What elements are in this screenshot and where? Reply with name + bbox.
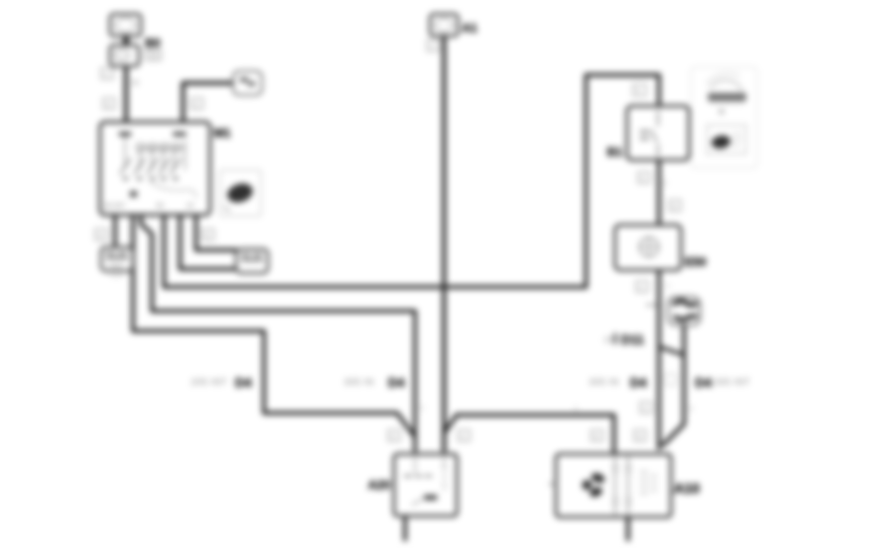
svg-text:B0: B0: [145, 36, 161, 50]
svg-text:3: 3: [98, 233, 102, 240]
connector square between wires at D4 row: [665, 374, 676, 385]
svg-text:D4: D4: [630, 375, 647, 390]
pin tick on wire above horn branch: [646, 304, 657, 306]
connector square below E50: [636, 281, 648, 292]
wire C : M1 jog down to A20 pin 1: [141, 215, 415, 452]
svg-text:3: 3: [672, 204, 676, 211]
svg-text:1: 1: [666, 283, 670, 290]
wire D : M1 down right and up to relay B: [164, 75, 659, 287]
svg-text:6: 6: [636, 88, 640, 95]
connector square 1 on B0 wire: [101, 68, 113, 79]
wire relay B to E50: [657, 160, 661, 225]
svg-text:3: 3: [637, 434, 641, 441]
connector square on wire above B box: [633, 84, 646, 96]
wire A20 ground stub: [403, 516, 407, 541]
svg-text:1: 1: [643, 406, 647, 413]
wire A1 trunk to A20 pin2: [442, 34, 446, 452]
svg-text:E50: E50: [685, 255, 707, 269]
svg-text:30: 30: [131, 80, 139, 87]
M1 internal switch drawing: [104, 132, 196, 210]
svg-text:1: 1: [663, 180, 667, 187]
wire A10 ground stub: [626, 517, 630, 541]
svg-text:D4: D4: [388, 375, 405, 390]
connector square left of pin A: [95, 229, 107, 240]
component A1 box: [430, 14, 458, 36]
relay B box: [627, 106, 689, 160]
svg-text:50: 50: [156, 203, 164, 210]
svg-text:305 IN: 305 IN: [589, 377, 619, 387]
connector square 2 on B0 wire: [103, 98, 115, 109]
wire branch from trunk to A10: [455, 415, 614, 454]
battery B0 lower box: [110, 45, 139, 66]
battery B0 upper box: [110, 14, 141, 36]
wire B : M1 to A20 pin 1 via left loop: [133, 215, 415, 437]
connector square left of A20 pin1: [388, 430, 400, 441]
control unit A10 box: [549, 454, 671, 517]
svg-text:4: 4: [594, 434, 598, 441]
svg-text:A20: A20: [368, 478, 390, 492]
connector square left of A10 pin2: [634, 430, 646, 441]
svg-text:1: 1: [104, 72, 108, 79]
svg-text:5: 5: [205, 233, 209, 240]
op M1 box: [100, 122, 210, 215]
svg-text:305 INT: 305 INT: [714, 377, 750, 387]
wire M1 pin A to connector 13A: [113, 215, 117, 250]
svg-text:D4: D4: [235, 375, 252, 390]
control unit A20 box: [394, 454, 457, 516]
connector square on ignition wire: [191, 98, 203, 109]
svg-text:305 IN: 305 IN: [344, 377, 374, 387]
svg-text:1: 1: [639, 285, 643, 292]
right pictogram panel: [691, 67, 757, 168]
wire diagonal joining trunk: [444, 416, 456, 433]
svg-text:1: 1: [420, 405, 424, 412]
svg-text:2: 2: [689, 406, 693, 413]
wire horn branch down to A10: [662, 325, 684, 446]
svg-text:A10: A10: [674, 480, 700, 496]
svg-text:1: 1: [430, 44, 434, 51]
svg-text:30 INT: 30 INT: [104, 203, 126, 210]
svg-text:D4: D4: [695, 375, 712, 390]
svg-text:2: 2: [194, 102, 198, 109]
svg-text:205 INT: 205 INT: [191, 377, 227, 387]
svg-text:05: 05: [604, 335, 614, 345]
svg-text:2: 2: [641, 176, 645, 183]
svg-text:B1: B1: [607, 145, 623, 159]
svg-text:2: 2: [391, 434, 395, 441]
wire E50 to A10: [657, 270, 661, 450]
pin tick right of wire below E50: [666, 283, 670, 290]
wire E : M1 to connector 13B lower: [180, 215, 237, 269]
connector square on main wire at 405: [640, 402, 652, 413]
connector square right of A20 pin2: [458, 430, 470, 441]
svg-text:4: 4: [106, 102, 110, 109]
key pictogram box right of M1: [220, 170, 261, 216]
wire B0 to M1: [124, 64, 128, 122]
fusebox icon grid under B0 label: [146, 50, 161, 60]
svg-text:15: 15: [186, 203, 194, 210]
svg-text:1: 1: [574, 406, 578, 413]
connector square right of M1 pins: [202, 229, 214, 240]
svg-text:M1: M1: [214, 126, 231, 140]
svg-text:A1: A1: [462, 21, 478, 35]
horn pictogram icon: [668, 297, 700, 325]
wire F : M1 to connector 13B upper: [196, 215, 237, 250]
wire ignition icon to M1: [183, 83, 233, 122]
wire from B0 upper box to lower box: [123, 34, 129, 47]
connector square right of wire above E50: [669, 200, 681, 211]
motor E50 box: [615, 225, 681, 270]
connector square left of A10 pin1: [591, 430, 603, 441]
ignition switch icon box: [233, 71, 262, 95]
connector square on A1 trunk: [427, 40, 439, 51]
wire branch bridge at junction: [660, 347, 684, 355]
svg-text:1: 1: [461, 434, 465, 441]
connector 13B box: [236, 249, 268, 273]
svg-text:D11: D11: [621, 332, 644, 347]
connector 13A box: [101, 247, 133, 276]
connector square below B box: [638, 172, 650, 183]
